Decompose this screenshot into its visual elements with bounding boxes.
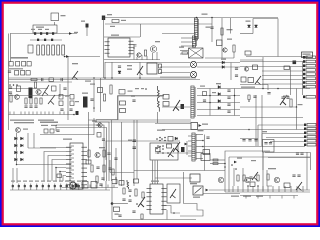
wire — [268, 157, 310, 159]
wire gnd stub — [245, 196, 247, 199]
junction — [277, 88, 279, 90]
resistor R72 — [213, 159, 218, 161]
wire stub — [72, 184, 74, 191]
wire — [257, 125, 259, 146]
wire stair3 — [180, 204, 203, 217]
wire stub — [284, 186, 286, 192]
diode D16 — [21, 137, 24, 140]
wire stub — [152, 53, 154, 60]
resistor R4 snubber — [182, 52, 188, 54]
capacitor C16 — [63, 88, 66, 89]
label R2 — [121, 20, 126, 21]
capacitor C61 — [296, 153, 299, 154]
junction — [202, 146, 204, 148]
capacitor C37 — [128, 200, 131, 201]
label R22 — [127, 65, 132, 66]
wire — [261, 134, 263, 147]
wire tap — [196, 152, 203, 154]
transistor Q25 — [98, 123, 102, 127]
wire left AC drop — [10, 34, 12, 63]
capacitor C51 — [76, 111, 79, 115]
wire — [204, 146, 305, 148]
resistor R61 — [59, 101, 63, 106]
label row P1 — [11, 181, 15, 182]
wire stub — [113, 185, 115, 188]
wire — [240, 106, 297, 108]
pin mark — [293, 61, 297, 65]
label row — [10, 57, 28, 59]
wire box edge — [262, 152, 264, 191]
wire stub — [78, 184, 80, 191]
line filter pin 3 — [47, 45, 50, 55]
wire right rail drop — [277, 19, 279, 57]
diode D18 — [21, 144, 24, 147]
capacitor C38 — [118, 215, 121, 216]
capacitor C18 — [118, 66, 121, 67]
wire stub — [257, 186, 259, 192]
transistor Q14 — [95, 152, 100, 157]
wire — [115, 148, 117, 185]
junction — [248, 100, 250, 102]
wire — [204, 135, 206, 171]
junction — [159, 140, 161, 142]
transformer T2 core lines — [189, 48, 204, 58]
resistor R19 — [35, 98, 37, 104]
transistor Q19 — [245, 177, 251, 183]
wire — [160, 66, 190, 68]
wire tap — [188, 135, 192, 137]
resistor R41 — [86, 160, 91, 164]
resistor R69 — [248, 95, 250, 100]
box feedback — [167, 184, 180, 203]
capacitor C13 — [61, 78, 62, 81]
diode D8 — [16, 62, 20, 67]
wire bundle f2 — [154, 161, 156, 185]
diode D28 — [234, 161, 237, 164]
diode D26 — [185, 143, 188, 146]
label R29 — [160, 95, 164, 96]
capacitor CP6 — [42, 185, 44, 187]
junction — [73, 114, 75, 116]
wire — [305, 129, 316, 131]
label row K1b — [14, 122, 34, 123]
transistor Q13 — [16, 128, 21, 133]
wire — [16, 133, 18, 165]
transistor Q10 — [244, 67, 248, 71]
wire stub — [9, 112, 11, 115]
wire stair1 — [163, 206, 180, 214]
capacitor C2 — [40, 32, 42, 35]
wire — [267, 85, 269, 91]
label C2 — [38, 29, 42, 30]
wire stub — [24, 112, 26, 115]
wire stub — [267, 186, 269, 192]
resistor R60 — [59, 95, 63, 100]
junction — [159, 146, 161, 148]
wire lower right bus — [240, 117, 303, 119]
capacitor CP11 — [72, 185, 74, 187]
label J2 — [298, 104, 303, 105]
label row P10 — [65, 181, 69, 182]
wire — [118, 95, 163, 97]
junction — [234, 95, 236, 97]
transistor Q24 — [15, 95, 20, 100]
capacitor C54 — [264, 143, 267, 144]
wire — [262, 133, 304, 135]
capacitor C4 — [37, 39, 39, 41]
resistor R66 — [44, 129, 48, 133]
label row P4 — [29, 181, 33, 182]
resistor R8 — [284, 66, 290, 70]
wire — [111, 62, 113, 78]
transistor Q2 switch — [150, 46, 156, 52]
label T4 — [198, 130, 204, 131]
wire amp box inner left — [228, 157, 230, 192]
label C8 — [206, 27, 211, 28]
capacitor C44 — [242, 140, 245, 141]
connector P2 — [307, 124, 316, 127]
transistor Q9 — [173, 100, 180, 111]
line filter pin 1 — [37, 45, 40, 55]
wire long mid — [134, 170, 225, 172]
wire — [157, 118, 159, 123]
resistor R64 — [123, 188, 125, 194]
label IC1 — [63, 139, 72, 140]
transistor Q20 — [252, 172, 258, 181]
resistor R26 — [110, 85, 112, 94]
junction — [164, 140, 166, 142]
wire stub — [30, 184, 32, 191]
resistor R14 — [17, 86, 21, 92]
connector P1 aux pin — [306, 96, 316, 99]
diode D3 — [248, 25, 251, 28]
junction — [145, 88, 147, 90]
resistor R35 — [290, 99, 292, 107]
wire — [9, 88, 49, 90]
wire stub — [262, 186, 264, 192]
wire bundle f3 — [157, 161, 159, 185]
resistor R43 — [112, 180, 117, 184]
capacitor C55 — [269, 143, 272, 144]
wire stub — [89, 185, 91, 188]
wire aux rail — [105, 23, 212, 25]
wire stub — [18, 184, 20, 191]
resistor R33 — [241, 77, 246, 82]
wire under IC — [104, 59, 160, 61]
junction — [231, 164, 233, 166]
capacitor CP4 — [30, 185, 32, 187]
resistor R16 — [52, 86, 57, 91]
connector P1 — [306, 56, 316, 59]
capacitor C64 — [90, 99, 93, 100]
ic IC1 jungle — [70, 143, 83, 189]
wire stub — [60, 184, 62, 191]
capacitor C42 — [181, 147, 185, 152]
capacitor C14 — [9, 87, 12, 88]
capacitor C26 — [181, 104, 185, 109]
resistor R54 — [267, 174, 269, 180]
label T1 — [202, 14, 208, 15]
resistor R73 — [213, 163, 218, 165]
junction T1 top — [196, 17, 198, 19]
label K4 — [51, 125, 57, 126]
junction — [173, 212, 175, 214]
label G cluster — [65, 96, 69, 97]
capacitor C60 — [203, 100, 206, 101]
resistor R51 — [243, 175, 245, 181]
wire — [240, 84, 268, 86]
transformer T2 driver — [189, 48, 204, 58]
junction — [157, 145, 159, 147]
capacitor C8 snubber — [210, 27, 213, 28]
label — [115, 214, 119, 215]
ic IC2 vertical output — [150, 184, 163, 214]
wire — [105, 62, 190, 64]
resistor R45 zig — [127, 180, 129, 189]
transformer T1 aux winding — [192, 36, 195, 47]
label C21 — [82, 93, 88, 94]
capacitor C43 — [206, 137, 209, 138]
wire — [160, 76, 190, 78]
wire stub — [32, 112, 34, 115]
label — [283, 96, 289, 97]
capacitor C45 — [248, 140, 251, 141]
wire stub — [77, 185, 79, 188]
resistor R36 — [88, 150, 90, 157]
wire stub — [12, 184, 14, 191]
label D5 — [221, 59, 226, 60]
junction — [159, 151, 161, 153]
transistor Q16 — [138, 197, 145, 207]
resistor R37 — [103, 150, 105, 157]
wire EW bus — [162, 129, 305, 131]
wire — [27, 133, 29, 148]
transformer T4 driver winding — [192, 133, 195, 161]
connector P6 — [82, 182, 88, 189]
wire — [209, 89, 211, 116]
wire — [93, 80, 95, 112]
label K3 — [41, 125, 48, 126]
label row K1 — [10, 120, 34, 121]
wire — [197, 66, 240, 68]
label Q2 — [155, 41, 160, 42]
wire bus bend1 — [56, 125, 104, 181]
transistor Q18 — [218, 177, 224, 183]
capacitor C17b — [29, 106, 32, 107]
diode D2 damper — [217, 40, 223, 46]
wire pin fan 4 — [56, 168, 66, 182]
capacitor C39 — [99, 184, 102, 185]
label C34 — [128, 140, 132, 141]
wire long secondary bus — [9, 77, 197, 79]
wire — [210, 163, 225, 165]
wire — [180, 50, 189, 52]
resistor R24 — [98, 88, 103, 93]
resistor R17 — [25, 98, 27, 104]
resistor R32 — [253, 65, 258, 70]
wire box sub — [106, 141, 180, 160]
transistor Q15 — [168, 148, 174, 157]
resistor R48 — [135, 189, 137, 196]
junction — [247, 185, 249, 187]
transistor Q12 — [280, 95, 287, 105]
resistor R38 — [91, 165, 93, 172]
junction — [93, 77, 95, 79]
wire tap1 — [197, 88, 240, 90]
wire stub — [48, 112, 50, 115]
line filter pin 5 — [57, 45, 60, 55]
diode D11 — [218, 86, 221, 89]
resistor R40 — [96, 176, 98, 183]
label H4 — [96, 125, 101, 126]
wire stub — [24, 184, 26, 191]
inductor L1 — [52, 32, 54, 35]
wire stub — [36, 184, 38, 191]
wire stub — [44, 112, 46, 115]
wire stub — [65, 185, 67, 188]
wire — [290, 67, 292, 96]
wire stub — [95, 185, 97, 188]
label U1 — [111, 35, 119, 36]
wire — [262, 57, 264, 89]
wire — [105, 181, 107, 190]
wire — [28, 147, 56, 149]
label posistor — [36, 27, 44, 28]
wire stub — [71, 185, 73, 188]
resistor R39 — [103, 165, 105, 172]
capacitor C10 — [235, 75, 238, 76]
box sync sub-circuit — [150, 143, 178, 160]
diode D10 — [119, 90, 125, 95]
resistor R44 — [119, 181, 124, 186]
wire tap — [196, 134, 203, 136]
resistor R68 — [97, 133, 101, 138]
label U3 — [193, 197, 200, 198]
capacitor C46 — [254, 140, 257, 141]
wire pin fan 6 — [63, 176, 66, 182]
wire gnd stub — [293, 196, 295, 199]
diode D27 — [134, 45, 137, 47]
capacitor C30 — [107, 153, 110, 154]
capacitor C23 — [227, 97, 230, 98]
wire link K to M — [55, 125, 57, 131]
wire — [139, 62, 141, 78]
wire tap3 — [197, 102, 240, 104]
capacitor C29 — [286, 97, 289, 98]
label H3 — [92, 121, 97, 122]
wire stub — [242, 186, 244, 192]
wire — [93, 118, 95, 135]
label amp — [268, 168, 276, 169]
wire box outline B — [118, 95, 162, 97]
capacitor C1 — [34, 32, 36, 35]
wire rectified out — [64, 56, 100, 58]
wire bus v4 — [111, 120, 113, 181]
capacitor C52 — [56, 130, 59, 131]
wire tap — [188, 155, 192, 157]
label row G2 — [9, 68, 23, 69]
wire — [262, 83, 303, 85]
wire — [112, 203, 128, 205]
capacitor C56 — [75, 184, 78, 188]
fuse F1 — [51, 13, 59, 21]
junction — [13, 84, 15, 86]
label amp i1 — [237, 158, 242, 159]
capacitor C11 — [8, 71, 11, 72]
resistor R11b — [26, 71, 30, 76]
capacitor C27 — [267, 93, 270, 94]
wire box outline A — [96, 96, 118, 120]
node AC-A — [69, 32, 72, 35]
capacitor C6 — [51, 39, 53, 41]
resistor R29 vertical chain — [158, 86, 160, 112]
box EW filter — [263, 140, 275, 153]
label D11 — [216, 83, 221, 84]
inductor L2 core — [190, 61, 196, 67]
wire stub — [42, 184, 44, 191]
label R5 — [227, 29, 233, 30]
junction — [129, 195, 131, 197]
diode D7 — [9, 62, 13, 67]
capacitor CP12 — [78, 185, 80, 187]
wire mid right bus — [240, 88, 310, 90]
resistor R57 — [203, 150, 210, 155]
junction — [157, 152, 159, 154]
capacitor C35 — [133, 147, 137, 149]
capacitor CP8 — [54, 185, 56, 187]
label row P2 — [17, 181, 21, 182]
wire stub — [296, 186, 298, 192]
wire bundle f1 — [152, 161, 154, 185]
wire gnd stub — [257, 196, 259, 199]
label C7b — [110, 26, 115, 27]
capacitor CP1 — [12, 185, 14, 187]
wire — [233, 168, 235, 186]
wire stub — [107, 185, 109, 188]
capacitor C36 — [128, 190, 131, 191]
wire — [230, 18, 232, 34]
wire — [162, 106, 190, 108]
resistor R12 — [31, 78, 37, 80]
capacitor C7 main filter — [102, 16, 105, 21]
label C1 — [31, 29, 35, 30]
wire gnd stub — [281, 196, 283, 199]
wire — [240, 61, 303, 63]
wire winding stub — [181, 41, 194, 43]
wire stub — [272, 186, 274, 192]
wire long v2 — [133, 120, 135, 186]
resistor R50 — [237, 175, 239, 181]
label row P3 — [23, 181, 27, 182]
junction blob — [111, 202, 114, 205]
label H1 — [135, 88, 139, 89]
resistor R15 — [34, 82, 36, 88]
capacitor CP9 — [60, 185, 62, 187]
resistor R52 — [250, 182, 255, 187]
wire — [262, 79, 303, 81]
ic U6 EW — [201, 154, 210, 161]
wire — [266, 137, 304, 139]
degauss relay box — [33, 25, 57, 33]
wire pin fan 2 — [48, 156, 66, 182]
wire AC line bus — [10, 33, 77, 35]
wire — [252, 19, 254, 34]
diode D22 — [21, 158, 24, 161]
capacitor C12 — [42, 78, 43, 81]
optocoupler U5 — [191, 123, 198, 130]
wire left bus — [8, 34, 10, 131]
line filter pin 2 — [42, 45, 45, 55]
